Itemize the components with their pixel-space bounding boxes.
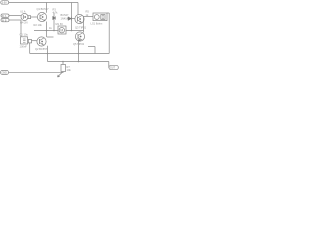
svg-text:100nF: 100nF bbox=[20, 45, 28, 49]
svg-text:M: M bbox=[60, 29, 63, 33]
svg-text:Q3 TIP31: Q3 TIP31 bbox=[75, 25, 87, 29]
svg-text:1N4148: 1N4148 bbox=[61, 17, 71, 21]
svg-text:10k: 10k bbox=[67, 68, 72, 72]
svg-text:Q4 2N: Q4 2N bbox=[20, 20, 28, 24]
svg-text:GND: GND bbox=[2, 72, 8, 75]
svg-text:C1 10u: C1 10u bbox=[20, 33, 29, 37]
svg-text:R2 10k: R2 10k bbox=[34, 23, 43, 27]
svg-text:Q5 TIP32: Q5 TIP32 bbox=[73, 42, 85, 46]
svg-text:4.7k: 4.7k bbox=[53, 11, 59, 15]
svg-text:IN B: IN B bbox=[2, 19, 7, 22]
svg-text:R5: R5 bbox=[86, 10, 90, 14]
svg-text:M1 6V: M1 6V bbox=[56, 22, 64, 26]
svg-text:U1 A: U1 A bbox=[20, 10, 26, 13]
svg-text:OUT: OUT bbox=[110, 67, 116, 70]
svg-text:5-9V: 5-9V bbox=[2, 1, 7, 4]
svg-text:LS1 8ohm: LS1 8ohm bbox=[91, 21, 103, 25]
svg-text:Q1 BC547: Q1 BC547 bbox=[37, 7, 50, 11]
svg-text:BC547: BC547 bbox=[61, 13, 69, 17]
svg-text:IN A: IN A bbox=[2, 15, 7, 18]
svg-text:Q2 BC557: Q2 BC557 bbox=[35, 47, 48, 51]
